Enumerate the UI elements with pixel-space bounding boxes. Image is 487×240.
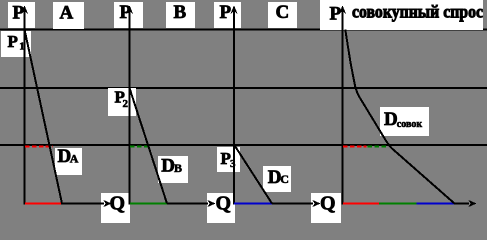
label box P3: [217, 147, 240, 172]
svg-text:1: 1: [19, 41, 25, 53]
green quantity segment (aggregate): [379, 203, 417, 205]
svg-text:A: A: [70, 151, 79, 165]
label box B: [166, 2, 195, 28]
arrowhead right (panel C): [312, 200, 321, 208]
label box P + aggregate title: [320, 0, 483, 30]
horizontal axis Q (panel A): [25, 203, 105, 205]
label box Q (panel A): [101, 193, 130, 223]
arrowhead right (aggregate panel): [468, 200, 477, 208]
label box DB: [158, 156, 188, 183]
horizontal axis Q (panel C): [234, 203, 313, 205]
label box DC: [263, 166, 291, 192]
label box P (panel B): [114, 2, 143, 28]
vertical axis P (panel C): [233, 7, 235, 205]
arrowhead up (aggregate panel): [339, 6, 346, 15]
blue quantity segment (panel C): [234, 203, 272, 205]
arrowhead up (panel C): [230, 6, 237, 15]
red quantity segment (panel A): [25, 203, 61, 205]
svg-text:A: A: [60, 3, 74, 24]
label box D aggregate: [380, 107, 429, 136]
svg-text:P: P: [220, 2, 232, 23]
svg-text:Q: Q: [320, 193, 336, 215]
price level line P1: [0, 29, 487, 31]
label box P1: [1, 31, 31, 57]
red dashed segment at P3 (panel A): [25, 146, 53, 148]
arrowhead up (panel B): [126, 6, 133, 15]
svg-text:Q: Q: [110, 193, 126, 215]
label box A: [53, 2, 84, 29]
svg-text:Q: Q: [216, 193, 232, 215]
arrowhead up (panel A): [21, 6, 28, 15]
vertical axis P (panel B): [129, 7, 131, 205]
svg-text:P: P: [13, 3, 25, 24]
svg-text:C: C: [280, 172, 289, 186]
svg-text:B: B: [174, 161, 182, 175]
green dashed segment at P3 (aggregate): [368, 146, 389, 148]
green dashed segment at P3 (panel B): [130, 146, 149, 148]
green quantity segment (panel B): [130, 203, 167, 205]
label box Q (panel B): [207, 193, 235, 223]
svg-text:P: P: [120, 2, 132, 23]
vertical axis P (aggregate panel): [342, 7, 344, 205]
label box P (panel C): [214, 2, 241, 28]
demand curve DC: [234, 145, 272, 204]
blue quantity segment (aggregate): [417, 203, 455, 205]
demand curve DA: [25, 30, 63, 204]
vertical axis P (panel A): [24, 7, 26, 205]
red dashed segment at P3 (aggregate): [343, 146, 367, 148]
label box P2: [108, 88, 136, 116]
label box P (panel A): [8, 2, 35, 28]
label box C: [268, 2, 297, 28]
arrowhead right (panel B): [207, 200, 216, 208]
svg-text:3: 3: [230, 158, 236, 170]
svg-text:B: B: [174, 2, 187, 23]
svg-text:совокупный спрос: совокупный спрос: [352, 2, 483, 22]
arrowhead right (panel A): [103, 200, 112, 208]
svg-text:2: 2: [123, 98, 129, 110]
horizontal axis Q (panel B): [130, 203, 209, 205]
price level line P3: [0, 144, 487, 146]
svg-text:P: P: [8, 32, 18, 51]
label box Q (panel C): [311, 193, 341, 223]
demand curve DB: [130, 88, 168, 204]
svg-text:P: P: [330, 4, 342, 25]
svg-text:D: D: [161, 156, 175, 177]
label box DA: [55, 148, 82, 175]
svg-text:C: C: [276, 2, 290, 23]
price level line P2: [0, 87, 487, 89]
horizontal axis Q (aggregate panel): [343, 203, 470, 205]
svg-text:совок: совок: [397, 119, 423, 130]
svg-text:D: D: [384, 109, 398, 130]
red quantity segment (aggregate): [343, 203, 379, 205]
aggregate demand curve: [345, 30, 454, 204]
